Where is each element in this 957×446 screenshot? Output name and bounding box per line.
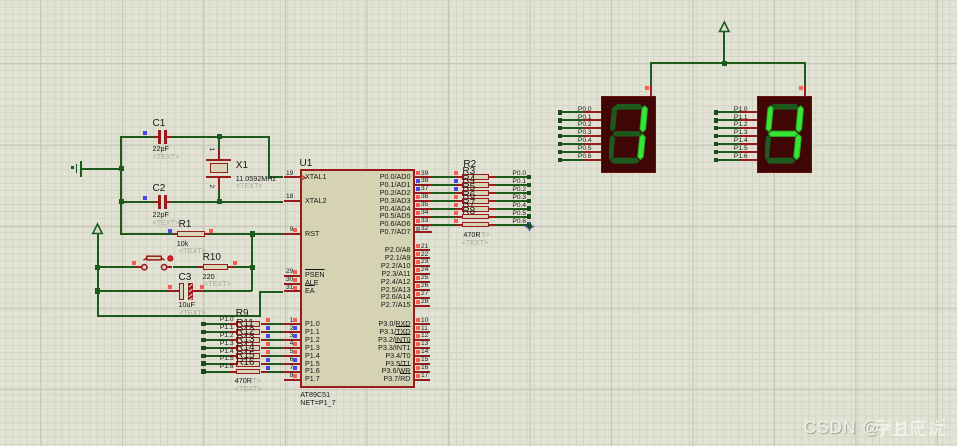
- pin number 5: [290, 349, 294, 356]
- state square: [416, 211, 420, 215]
- junction C2/rail: [119, 199, 124, 204]
- lead C1 left: [154, 136, 158, 138]
- state square: [416, 374, 420, 378]
- state square net P0.4: [454, 203, 458, 207]
- wire C1 row left: [121, 136, 154, 138]
- label R9: [236, 309, 249, 319]
- lead R9 left row4: [230, 355, 236, 357]
- pin 25 stub P2.4: [415, 281, 431, 283]
- pin name P2.7/A15: [381, 301, 411, 308]
- state square C3 left red: [168, 285, 172, 289]
- display1 terminal P0.1: [558, 118, 563, 123]
- wire R pack to terminal P0.4: [495, 208, 528, 210]
- lead crystal pin1: [218, 149, 220, 160]
- pin 26 stub P2.5: [415, 289, 431, 291]
- lead R9 left row1: [230, 331, 236, 333]
- lead C1 right: [167, 136, 172, 138]
- resistor R16 body row6: [236, 369, 261, 375]
- wire R pack to terminal P0.5: [495, 216, 528, 218]
- lead R9 right row5: [261, 363, 267, 365]
- wire EA net horizontal y315.9: [97, 315, 262, 317]
- pin 10 stub P3.0: [415, 323, 431, 325]
- wire R pack to terminal P0.2: [495, 192, 528, 194]
- display1 common pin stub: [650, 86, 652, 96]
- pin 39 stub P0.0: [415, 176, 432, 178]
- pin name: [305, 271, 325, 278]
- state square: [416, 203, 420, 207]
- wire R9 pack to pin 2: [267, 331, 284, 333]
- state square R1 right red: [209, 229, 213, 233]
- state square: [416, 244, 420, 248]
- net label P0.1: [512, 179, 526, 186]
- 7-segment display left body: [601, 96, 656, 173]
- terminal P1.2: [201, 338, 206, 343]
- crystal X1: [206, 159, 232, 161]
- pin name P2.6/A14: [381, 293, 411, 300]
- pin name P1.6: [305, 367, 320, 374]
- pin number 3: [290, 333, 294, 340]
- pin number 2: [290, 326, 294, 333]
- pin name P0.7/AD7: [380, 228, 411, 235]
- state square: [293, 278, 297, 282]
- pin number 1 crystal: [208, 147, 215, 151]
- junction crystal/C2 row: [217, 199, 222, 204]
- state square: [416, 187, 420, 191]
- wire crystal pin2 down: [218, 190, 220, 203]
- pin number 19: [286, 171, 293, 178]
- wire terminal to R9 pack row6: [206, 371, 231, 373]
- wire to XTAL1 vertical: [268, 136, 270, 179]
- pin name P0.6/AD6: [380, 220, 411, 227]
- label R12: [236, 327, 254, 337]
- text R1: [179, 247, 206, 254]
- pin 17 stub P3.7: [415, 379, 431, 381]
- display2 pin stub 3: [740, 135, 758, 137]
- pin number 22: [421, 252, 428, 259]
- pin name P3.4: [385, 352, 410, 359]
- pin number 7: [290, 365, 294, 372]
- display2 terminal P1.0: [714, 110, 719, 115]
- power symbol VCC arrow left: [89, 222, 107, 236]
- state square net P1.3: [266, 342, 270, 346]
- terminal P0.3: [527, 199, 532, 204]
- text R9 pack: [235, 385, 262, 392]
- capacitor C3 polarized: [179, 283, 183, 300]
- lead R9 left row5: [230, 363, 236, 365]
- pin 31 stub: [284, 290, 301, 292]
- display2 pin stub 2: [740, 127, 758, 129]
- lead R9 right row6: [261, 371, 267, 373]
- value 470R R9 pack: [235, 377, 252, 384]
- pin number 31: [286, 285, 293, 292]
- net label P0.4: [512, 203, 526, 210]
- lead crystal pin2: [218, 178, 220, 190]
- state square net P1.2: [266, 334, 270, 338]
- wire display1 pin 4: [562, 143, 584, 145]
- wire terminal to R9 pack row4: [206, 355, 231, 357]
- state square display1 common: [645, 86, 649, 90]
- pin 19 stub XTAL1: [284, 176, 301, 178]
- power symbol VCC arrow top: [715, 20, 734, 34]
- state square net P1.1: [266, 326, 270, 330]
- pin 33 stub P0.6: [415, 224, 432, 226]
- lead C2 right: [167, 201, 172, 203]
- 7-segment display right body: [757, 96, 812, 173]
- net label P0.3: [512, 195, 526, 202]
- pin 28 stub P2.7: [415, 305, 431, 307]
- lead R right row2: [489, 192, 495, 194]
- state square: [293, 366, 297, 370]
- wire display2 pin 2: [718, 127, 740, 129]
- state square: [293, 374, 297, 378]
- state square: [416, 219, 420, 223]
- resistor R3 body row1: [462, 182, 489, 188]
- state square: [416, 268, 420, 272]
- state square: [416, 358, 420, 362]
- state square: [416, 171, 420, 175]
- pin 3 stub P1.2: [284, 339, 301, 341]
- wire terminal to R9 pack row1: [206, 331, 231, 333]
- state square button red: [132, 261, 136, 265]
- wire R pack to terminal P0.1: [495, 184, 528, 186]
- watermark CJK glyphs: [874, 419, 948, 437]
- display1 net label P0.5: [578, 146, 592, 153]
- text C1: [153, 153, 180, 160]
- display1 net label P0.4: [578, 138, 592, 145]
- resistor R15 body row5: [236, 361, 261, 367]
- wire RST row left: [121, 233, 173, 235]
- value R10: [203, 273, 215, 280]
- op-amp U1 AT89C51 chip body: [300, 169, 415, 389]
- pin name P3.0: [379, 320, 411, 327]
- state square: [293, 270, 297, 274]
- text C2: [153, 219, 180, 226]
- display2 terminal P1.5: [714, 150, 719, 155]
- terminal P0.6: [527, 222, 532, 227]
- wire R9 pack to pin 7: [267, 371, 284, 373]
- push button: [139, 252, 175, 272]
- terminal P1.4: [201, 354, 206, 359]
- pin number 18: [286, 194, 293, 201]
- pin name XTAL1: [305, 173, 326, 180]
- pin 12 stub P3.2: [415, 339, 431, 341]
- pin name P1.7: [305, 375, 320, 382]
- display1 pin stub 3: [584, 135, 602, 137]
- display1 pin stub 5: [584, 151, 602, 153]
- resistor R12 body row2: [236, 337, 261, 343]
- lead R right row1: [489, 184, 495, 186]
- lead R9 right row1: [261, 331, 267, 333]
- state square C2 blue: [143, 196, 147, 200]
- pin name P1.2: [305, 336, 320, 343]
- wire display2 pin 3: [718, 135, 740, 137]
- wire display2 pin 4: [718, 143, 740, 145]
- pin name P0.5/AD5: [380, 212, 411, 219]
- display2 pin stub 1: [740, 119, 758, 121]
- resistor R13 body row3: [236, 345, 261, 351]
- wire R9 pack to pin 3: [267, 339, 284, 341]
- display1 pin stub 0: [584, 111, 602, 113]
- pin name P0.1/AD1: [380, 181, 411, 188]
- lead C3 left: [168, 290, 179, 292]
- resistor R4 body row2: [462, 190, 489, 196]
- resistor R6 body row4: [462, 206, 489, 212]
- pin number 37: [421, 186, 428, 193]
- terminal P0.1: [527, 183, 532, 188]
- junction RST/vertical: [250, 231, 255, 236]
- capacitor C2: [158, 195, 161, 209]
- label R11: [236, 319, 254, 329]
- terminal P0.5: [527, 214, 532, 219]
- lead R9 left row6: [230, 371, 236, 373]
- lead R10 left: [197, 266, 203, 268]
- terminal P0.4: [527, 206, 532, 211]
- pin number 13: [421, 341, 428, 348]
- pin 24 stub P2.3: [415, 273, 431, 275]
- pin 16 stub P3.6: [415, 371, 431, 373]
- wire down to display1 common: [650, 62, 652, 85]
- resistor R8 body row6: [462, 222, 489, 228]
- resistor R9 body row0: [236, 321, 261, 327]
- pin name P2.4/A12: [381, 278, 411, 285]
- wire RST vertical x252.3: [251, 234, 253, 291]
- wire pin35 to R pack: [432, 208, 457, 210]
- display1 pin stub 2: [584, 127, 602, 129]
- wire RST row right: [209, 233, 284, 235]
- wire display1 pin 3: [562, 135, 584, 137]
- label R2: [463, 160, 476, 170]
- display1 terminal P0.5: [558, 150, 563, 155]
- lead R right row5: [489, 216, 495, 218]
- wire display1 pin 6: [562, 159, 584, 161]
- lead R1 right: [205, 233, 209, 235]
- pin 19 marker: [301, 175, 306, 181]
- state square: [416, 366, 420, 370]
- state square: [416, 284, 420, 288]
- label R1: [179, 220, 192, 230]
- pin number 25: [421, 275, 428, 282]
- wire XTAL1 row: [270, 176, 284, 178]
- label R5: [462, 183, 475, 193]
- display2 pin stub 5: [740, 151, 758, 153]
- wire display2 pin 5: [718, 151, 740, 153]
- label X1: [236, 161, 248, 171]
- junction crystal/C1 row: [217, 134, 222, 139]
- state square C3 right red: [200, 285, 204, 289]
- net label P0.6: [512, 219, 526, 226]
- pin name P0.2/AD2: [380, 189, 411, 196]
- pin number 8: [290, 373, 294, 380]
- pin name P2.1/A9: [385, 254, 411, 261]
- pin number 17: [421, 373, 428, 380]
- display1 terminal P0.6: [558, 158, 563, 163]
- lead C3 right: [193, 290, 204, 292]
- wire GND rail vertical x120.7: [120, 136, 122, 235]
- pin name P1.0: [305, 320, 320, 327]
- display1 net label P0.3: [578, 130, 592, 137]
- pin number 35: [421, 202, 428, 209]
- net label P0.0: [512, 171, 526, 178]
- display2 common pin stub: [804, 86, 806, 96]
- label R10: [203, 253, 221, 263]
- pin 2 stub P1.1: [284, 331, 301, 333]
- wire R pack to terminal P0.0: [495, 176, 528, 178]
- display1 terminal P0.0: [558, 110, 563, 115]
- display left digit 1 segments: [609, 104, 656, 166]
- wire pin36 to R pack: [432, 200, 457, 202]
- pin number 12: [421, 333, 428, 340]
- lead R right row6: [489, 224, 495, 226]
- lead button right: [167, 266, 173, 268]
- value X1: [236, 175, 276, 182]
- wire C3 to vertical: [204, 290, 252, 292]
- wire EA net to pin31: [259, 291, 283, 293]
- wire display1 pin 1: [562, 119, 584, 121]
- pin name P0.4/AD4: [380, 205, 411, 212]
- lead R9 left row0: [230, 323, 236, 325]
- pin 29 stub: [284, 275, 301, 277]
- pin name P1.4: [305, 352, 320, 359]
- net label P1.5: [220, 356, 234, 363]
- label R14: [236, 343, 254, 353]
- wire C3 row left: [98, 290, 169, 292]
- pin 23 stub P2.2: [415, 265, 431, 267]
- wire EA net vertical x260: [259, 293, 261, 317]
- state square: [293, 326, 297, 330]
- display2 net label P1.0: [734, 107, 748, 114]
- wire R9 pack to pin 5: [267, 355, 284, 357]
- text NET=P1_7: [300, 399, 335, 406]
- resistor R7 body row5: [462, 214, 489, 220]
- pin name P3.1: [379, 328, 410, 335]
- lead R left row5: [456, 216, 462, 218]
- wire display2 pin 6: [718, 159, 740, 161]
- watermark CSDN: [804, 419, 881, 437]
- state square: [416, 252, 420, 256]
- net label P1.2: [220, 333, 234, 340]
- terminal P1.0: [201, 322, 206, 327]
- pin name P1.5: [305, 360, 320, 367]
- display2 net label P1.1: [734, 115, 748, 122]
- lead R9 left row3: [230, 347, 236, 349]
- display2 terminal P1.4: [714, 142, 719, 147]
- label R6: [462, 191, 475, 201]
- pin number 32: [421, 226, 428, 233]
- pin 21 stub P2.0: [415, 249, 431, 251]
- pin number 33: [421, 218, 428, 225]
- origin marker blue cross: [525, 222, 534, 231]
- pin 7 stub P1.6: [284, 371, 301, 373]
- pin 1 stub P1.0: [284, 323, 301, 325]
- display1 terminal P0.4: [558, 142, 563, 147]
- pin number 6: [290, 357, 294, 364]
- display2 net label P1.6: [734, 154, 748, 161]
- pin number 30: [286, 277, 293, 284]
- wire R10 to junction: [233, 266, 252, 268]
- wire display2 pin 0: [718, 111, 740, 113]
- wire C1 row right: [172, 136, 269, 138]
- state square: [416, 318, 420, 322]
- pin 13 stub P3.3: [415, 347, 431, 349]
- pin 35 stub P0.4: [415, 208, 432, 210]
- wire pin37 to R pack: [432, 192, 457, 194]
- state square net P0.2: [454, 187, 458, 191]
- state square net P0.6: [454, 219, 458, 223]
- wire R9 pack to pin 4: [267, 347, 284, 349]
- terminal P1.5: [201, 361, 206, 366]
- wire R pack to terminal P0.6: [495, 224, 528, 226]
- state square display2 common: [799, 86, 803, 90]
- pin 6 stub P1.5: [284, 363, 301, 365]
- pin number 10: [421, 318, 428, 325]
- pin number 2 crystal: [208, 184, 215, 188]
- state square net P0.1: [454, 179, 458, 183]
- state square: [293, 286, 297, 290]
- value R1: [177, 240, 189, 247]
- lead R left row3: [456, 200, 462, 202]
- wire display1 pin 0: [562, 111, 584, 113]
- pin number 27: [421, 291, 428, 298]
- label R8: [462, 207, 475, 217]
- pin name P3.5: [385, 360, 410, 367]
- wire R9 pack to pin 6: [267, 363, 284, 365]
- net label P0.2: [512, 187, 526, 194]
- state square net P0.5: [454, 211, 458, 215]
- display2 terminal P1.6: [714, 158, 719, 163]
- display2 pin stub 4: [740, 143, 758, 145]
- pin 5 stub P1.4: [284, 355, 301, 357]
- lead R left row4: [456, 208, 462, 210]
- state square R1 left blue: [168, 229, 172, 233]
- pin 8 stub P1.7: [284, 379, 301, 381]
- display2 terminal P1.1: [714, 118, 719, 123]
- display1 terminal P0.3: [558, 134, 563, 139]
- pin name P3.2: [378, 336, 410, 343]
- pin name P3.6: [382, 367, 411, 374]
- lead R left row1: [456, 184, 462, 186]
- wire terminal to R9 pack row5: [206, 363, 231, 365]
- pin 36 stub P0.3: [415, 200, 432, 202]
- wire VCC arrow down: [723, 32, 725, 64]
- pin number 34: [421, 210, 428, 217]
- wire crystal pin1 up: [218, 137, 220, 149]
- state square: [416, 227, 420, 231]
- state square C1 blue: [143, 131, 147, 135]
- state square: [416, 260, 420, 264]
- lead C2 left: [154, 201, 158, 203]
- display1 pin stub 6: [584, 159, 602, 161]
- lead R9 right row0: [261, 323, 267, 325]
- resistor R10: [203, 264, 229, 270]
- wire terminal to R9 pack row2: [206, 339, 231, 341]
- display1 net label P0.2: [578, 122, 592, 129]
- pin number 39: [421, 171, 428, 178]
- display1 net label P0.6: [578, 154, 592, 161]
- wire terminal to R9 pack row0: [206, 323, 231, 325]
- net label P1.1: [220, 325, 234, 332]
- pin name P0.3/AD3: [380, 197, 411, 204]
- pin number 38: [421, 178, 428, 185]
- pin number 24: [421, 267, 428, 274]
- pin number 16: [421, 365, 428, 372]
- pin number 29: [286, 269, 293, 276]
- state square R10 right red: [233, 261, 237, 265]
- state square: [416, 300, 420, 304]
- display2 terminal P1.2: [714, 126, 719, 131]
- terminal P0.2: [527, 191, 532, 196]
- pin 27 stub P2.6: [415, 297, 431, 299]
- label C1: [153, 119, 166, 129]
